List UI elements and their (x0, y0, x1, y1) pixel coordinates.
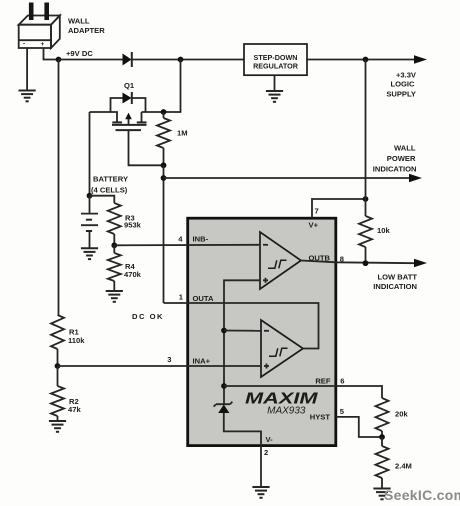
transistor Q1 (P-channel MOSFET) (90, 112, 164, 130)
diode D1 (123, 52, 132, 67)
wire Q1 source to battery (89, 112, 91, 196)
svg-text:INDICATION: INDICATION (373, 164, 417, 173)
wire INA+ (pin 3) (58, 365, 262, 367)
wire battery to R3 (90, 196, 115, 203)
node 10k top (363, 196, 369, 202)
wire comparator A - input (224, 330, 261, 332)
svg-text:LOGIC: LOGIC (390, 80, 415, 89)
svg-text:1M: 1M (177, 129, 188, 138)
wall adapter (19, 3, 60, 49)
wire left rail (58, 60, 60, 316)
svg-text:POWER: POWER (387, 154, 416, 163)
svg-text:OUTB: OUTB (308, 254, 330, 263)
resistor 20k (376, 398, 389, 437)
battery B1 (4 cells) (81, 196, 98, 248)
wire gate node down (163, 165, 165, 303)
node OUTB / 10k bottom (363, 260, 369, 266)
svg-text:10k: 10k (377, 226, 390, 235)
arrow +3.3V (414, 55, 427, 63)
ground (2.4M) (373, 489, 390, 500)
node gate / 1M bottom (161, 162, 167, 168)
svg-text:V+: V+ (309, 221, 319, 230)
svg-text:REF: REF (315, 377, 331, 386)
resistor R4 470k (108, 245, 121, 290)
comparator A (bottom) (261, 320, 303, 377)
ground (battery) (81, 248, 98, 259)
resistor 2.4M (376, 437, 389, 488)
comparator B (top) (260, 232, 301, 289)
svg-text:20k: 20k (395, 410, 408, 419)
wire OUTB (pin 8) low batt (301, 261, 415, 264)
wire V+ (pin 7) (312, 199, 366, 218)
svg-text:OUTA: OUTA (193, 294, 214, 303)
svg-text:REGULATOR: REGULATOR (253, 62, 299, 71)
wire regulator ground stub (274, 75, 276, 90)
svg-text:INDICATION: INDICATION (373, 282, 417, 291)
wire HYST (pin 5) (336, 417, 382, 437)
svg-text:Q1: Q1 (124, 81, 135, 90)
wire Q1 gate lead (129, 130, 164, 165)
svg-text:MAX933: MAX933 (267, 406, 306, 417)
svg-text:SeekIC.com: SeekIC.com (384, 487, 460, 503)
svg-text:WALL: WALL (394, 144, 416, 153)
svg-text:SUPPLY: SUPPLY (386, 90, 416, 99)
svg-text:7: 7 (315, 207, 319, 216)
node R3/R4/INB- (111, 242, 117, 248)
svg-text:5: 5 (340, 407, 345, 416)
svg-text:BATTERY: BATTERY (93, 175, 128, 184)
svg-text:110k: 110k (68, 336, 85, 345)
svg-text:+3.3V: +3.3V (396, 71, 417, 80)
svg-text:LOW BATT: LOW BATT (377, 273, 417, 282)
svg-text:-: - (23, 41, 25, 48)
arrow low batt (414, 259, 427, 267)
resistor 1M (157, 112, 170, 165)
wire REF (pin 6) (224, 386, 382, 398)
wire comparator B + input chain (224, 280, 260, 403)
svg-text:1: 1 (179, 293, 184, 302)
ground (regulator) (266, 91, 283, 102)
wire pull-up rail (365, 60, 367, 217)
wire +9V rail (59, 59, 245, 61)
node drain / 1M top (161, 109, 167, 115)
svg-text:V-: V- (266, 435, 274, 444)
svg-text:4: 4 (178, 235, 183, 244)
svg-text:8: 8 (340, 255, 344, 264)
node +3.3V / pull-up rail (363, 57, 369, 63)
ground (R2) (49, 421, 66, 432)
svg-text:470k: 470k (124, 270, 142, 279)
node comp inputs junction (221, 328, 227, 334)
resistor R2 47k (51, 366, 64, 421)
wire OUTA (pin 1) (164, 303, 319, 349)
op-amp U1 MAX933 body (188, 218, 336, 445)
svg-text:(4 CELLS): (4 CELLS) (91, 186, 128, 195)
resistor 10k (359, 216, 372, 263)
node wall-power takeoff (161, 175, 167, 181)
svg-text:+: + (41, 41, 45, 48)
svg-text:ADAPTER: ADAPTER (68, 26, 105, 35)
wire adapter right lead (44, 48, 59, 60)
resistor R1 110k (51, 315, 64, 366)
wire wall power indication (164, 177, 411, 179)
svg-text:WALL: WALL (68, 17, 90, 26)
svg-text:3: 3 (167, 355, 171, 364)
node REF junction (221, 383, 227, 389)
ground (R4) (106, 291, 123, 302)
svg-text:INB-: INB- (193, 235, 209, 244)
wire Q1 body-diode loop (111, 98, 146, 112)
node +9V junction (56, 57, 62, 63)
svg-text:2: 2 (264, 448, 268, 457)
svg-text:6: 6 (340, 377, 344, 386)
node drain branch (178, 57, 184, 63)
wire adapter left lead (26, 48, 28, 90)
node 20k/HYST/2.4M (379, 434, 385, 440)
arrow wall power (409, 174, 422, 182)
wire drain to +9V (164, 60, 181, 113)
resistor R3 953k (108, 203, 121, 245)
diode Q1 body diode (123, 92, 132, 104)
wire +3.3V output (307, 59, 415, 61)
ground (wall adapter) (19, 91, 36, 102)
wire V- (pin 2) to ground (260, 445, 262, 487)
svg-text:DC OK: DC OK (132, 312, 164, 321)
node R1/R2/INA+ (55, 363, 61, 369)
svg-text:HYST: HYST (310, 413, 331, 422)
svg-text:47k: 47k (68, 405, 81, 414)
svg-text:INA+: INA+ (193, 357, 211, 366)
svg-text:2.4M: 2.4M (395, 462, 412, 471)
wire INB- (pin 4) (114, 244, 260, 247)
zener reference diode (214, 402, 261, 445)
step-down regulator U2 (244, 44, 307, 75)
ground (V-) (252, 487, 269, 498)
node battery + (87, 193, 93, 199)
svg-text:+9V DC: +9V DC (66, 49, 93, 58)
svg-text:953k: 953k (124, 221, 142, 230)
